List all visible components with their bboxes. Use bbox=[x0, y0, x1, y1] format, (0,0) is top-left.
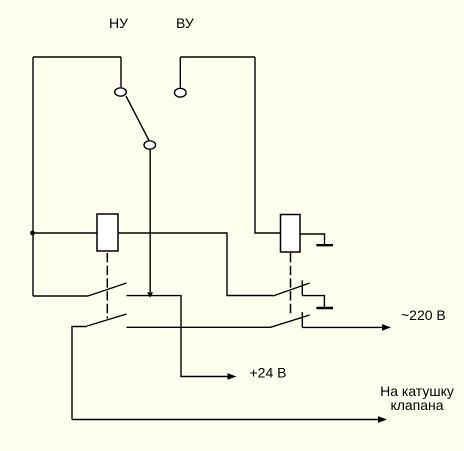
wire relay K1 to right, down, to right contact row bbox=[118, 233, 273, 296]
arrowhead to +24V bbox=[228, 373, 237, 380]
switch SA (НУ) upper contact circle bbox=[115, 88, 127, 96]
switch ВУ contact circle bbox=[175, 88, 187, 97]
switch SA toggle arm bbox=[126, 96, 149, 141]
arrowhead to valve coil bbox=[378, 416, 387, 423]
dashed linkage of relay K2 bbox=[290, 253, 292, 314]
wire ВУ stem vertical bbox=[179, 57, 181, 89]
arrowhead to ~220V bbox=[382, 324, 391, 331]
ground bar (contact K2.1) bbox=[316, 307, 333, 309]
contact K2.2 fixed contact tick bbox=[301, 312, 303, 327]
wire left vertical bus bbox=[32, 57, 34, 296]
contact K1.2 movable arm bbox=[87, 314, 127, 326]
ground bar (relay K2) bbox=[316, 244, 333, 246]
contact K2.1 fixed contact tick bbox=[301, 280, 303, 295]
wire right vertical to relay K2 bbox=[255, 57, 281, 233]
wire ВУ stem horizontal bbox=[180, 56, 255, 58]
contact K1.1 left lead bbox=[33, 295, 88, 297]
contact K2.1 movable arm bbox=[273, 283, 310, 296]
wire contact K2.1 to ground bbox=[302, 296, 324, 307]
wire to ~220V arrow bbox=[302, 326, 383, 328]
contact K1.1 right lead to +24V bbox=[127, 296, 231, 377]
contact K1.1 movable arm bbox=[88, 283, 127, 296]
node junction dot at left bus bbox=[30, 231, 35, 236]
relay coil K1 bbox=[97, 214, 118, 251]
relay coil K2 bbox=[281, 215, 301, 253]
svg-text:НУ: НУ bbox=[109, 15, 128, 31]
wire left bus to relay K1 bbox=[32, 232, 97, 234]
wire relay K2 to ground bbox=[300, 234, 325, 245]
wire lower row horizontal between contacts bbox=[127, 326, 271, 328]
svg-text:+24 В: +24 В bbox=[250, 365, 287, 381]
svg-text:~220 В: ~220 В bbox=[401, 307, 446, 323]
svg-text:ВУ: ВУ bbox=[176, 15, 194, 31]
wire НУ switch stem bbox=[120, 57, 122, 87]
svg-text:клапана: клапана bbox=[390, 397, 443, 413]
contact K2.2 movable arm bbox=[270, 315, 310, 327]
wire top-left horizontal bbox=[33, 56, 121, 58]
arrowhead junction at +24V rail bbox=[147, 292, 153, 298]
contact K1.2 left lead with vertical drop bbox=[72, 327, 87, 420]
dashed linkage of relay K1 bbox=[106, 253, 108, 319]
wire bottom line to valve coil bbox=[72, 419, 380, 421]
wire from toggle switch down to +24V rail junction bbox=[149, 149, 151, 292]
switch SA lower contact circle bbox=[144, 141, 156, 149]
